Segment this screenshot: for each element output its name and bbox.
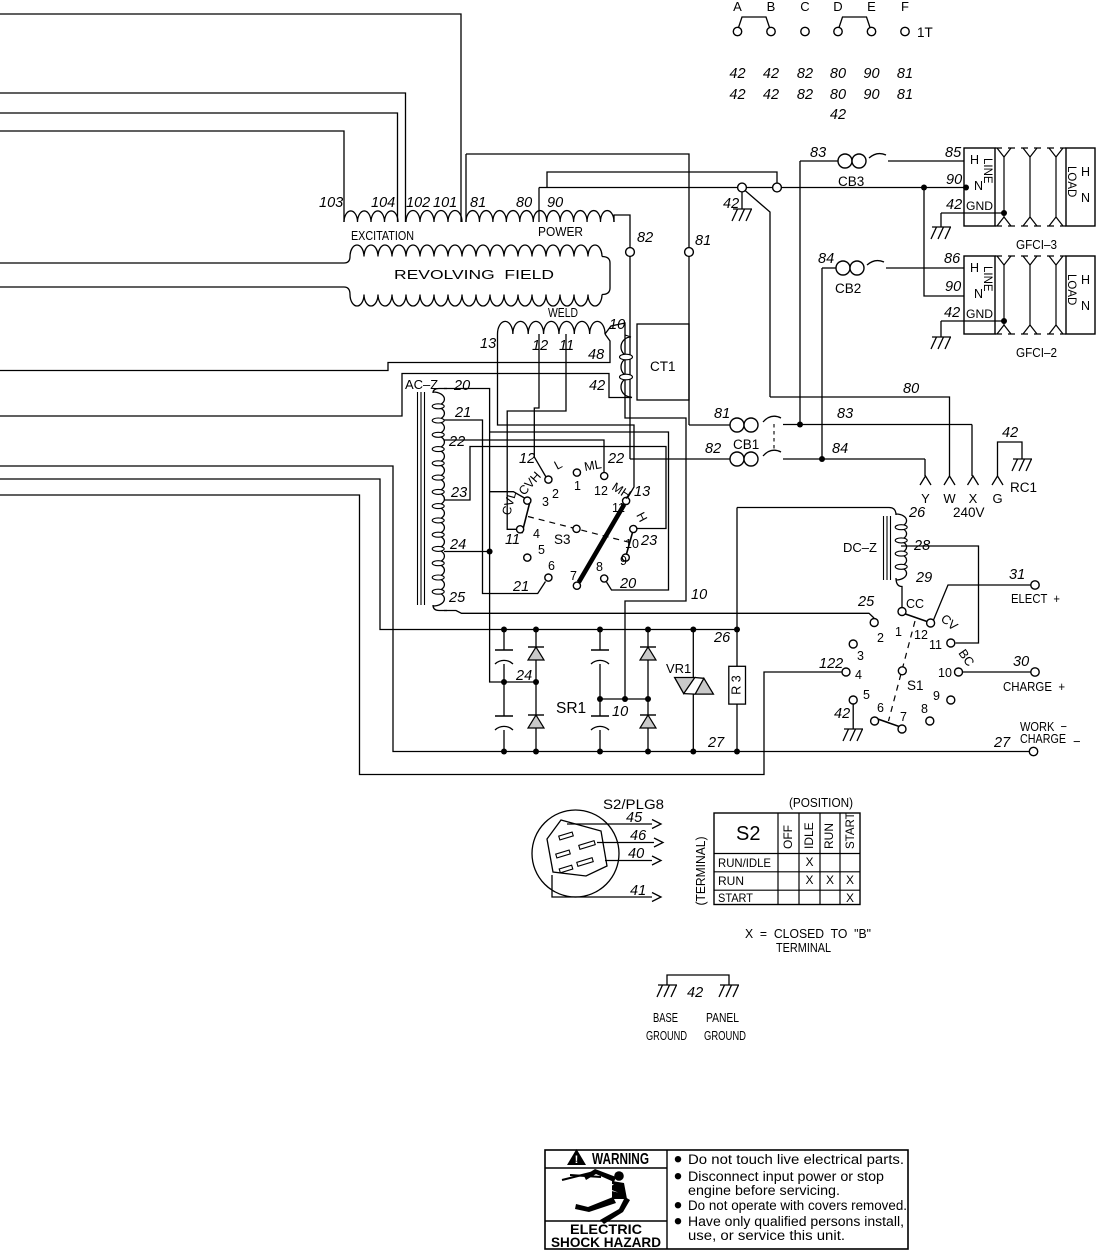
svg-text:42: 42 — [763, 87, 779, 103]
svg-text:42: 42 — [729, 87, 745, 103]
svg-text:81: 81 — [695, 233, 711, 249]
S1 contact 6 — [871, 717, 879, 725]
svg-text:E: E — [867, 0, 876, 14]
svg-text:25: 25 — [448, 590, 466, 606]
resistor R3 — [736, 630, 738, 667]
svg-text:GND: GND — [966, 307, 993, 321]
svg-text:EXCITATION: EXCITATION — [351, 229, 414, 243]
S1 contact 4 — [842, 668, 850, 676]
svg-text:TERMINAL: TERMINAL — [776, 940, 831, 955]
plug wire 40 — [605, 860, 652, 862]
svg-text:102: 102 — [406, 195, 430, 211]
plug wire 46 — [597, 842, 654, 844]
svg-text:X: X — [846, 873, 854, 887]
S3 contact 8 wire (node 20) — [490, 432, 669, 590]
svg-text:ELECT +: ELECT + — [1011, 591, 1060, 606]
svg-text:N: N — [974, 179, 983, 193]
svg-text:9: 9 — [620, 554, 627, 568]
plug wire 41 — [552, 875, 652, 897]
svg-text:103: 103 — [319, 195, 343, 211]
S3 contact 7 — [573, 582, 580, 589]
svg-text:24: 24 — [515, 668, 532, 684]
S1 contact 2 — [870, 619, 878, 627]
svg-text:B: B — [767, 0, 776, 14]
S3 wiper bar (11 to 7) — [579, 505, 624, 583]
svg-text:BASE: BASE — [653, 1010, 678, 1025]
svg-text:X: X — [805, 855, 813, 869]
svg-text:R 3: R 3 — [730, 675, 744, 695]
CB1 trip linkage — [773, 424, 775, 452]
current transformer CT1 — [637, 324, 689, 400]
AC-Z tap 23 — [444, 447, 666, 529]
GFCI-3 pin at x=1030 — [1029, 157, 1031, 217]
svg-text:CC: CC — [906, 597, 924, 611]
plug slot — [579, 841, 595, 850]
svg-text:CHARGE: CHARGE — [1020, 731, 1066, 746]
GFCI-3 dashed enclosure — [995, 147, 1066, 149]
svg-text:90: 90 — [863, 87, 879, 103]
wire 80 to receptacle W — [770, 397, 950, 476]
plug body — [547, 820, 607, 876]
svg-text:10: 10 — [625, 537, 639, 551]
svg-text:engine before servicing.: engine before servicing. — [688, 1183, 840, 1198]
svg-text:30: 30 — [1013, 654, 1029, 670]
svg-text:7: 7 — [900, 710, 907, 724]
wire 84 riser CB2 to CB1 — [821, 268, 823, 459]
svg-text:CB2: CB2 — [835, 281, 861, 296]
svg-text:WARNING: WARNING — [592, 1151, 649, 1168]
svg-text:SR1: SR1 — [556, 700, 586, 717]
svg-text:42: 42 — [763, 66, 779, 82]
connector circle 81 — [685, 248, 694, 257]
svg-text:42: 42 — [1002, 425, 1018, 441]
ground stub 42 at neutral connector — [741, 192, 743, 209]
svg-text:WELD: WELD — [548, 306, 578, 320]
svg-text:GROUND: GROUND — [646, 1028, 687, 1043]
svg-text:Do not touch live electrical p: Do not touch live electrical parts. — [688, 1152, 904, 1167]
svg-text:84: 84 — [818, 251, 834, 267]
svg-text:4: 4 — [855, 668, 862, 682]
svg-text:X: X — [846, 891, 854, 905]
weld winding WELD — [498, 321, 606, 334]
GFCI-3 pin at x=1056 — [1055, 157, 1057, 217]
svg-text:6: 6 — [877, 701, 884, 715]
svg-text:24: 24 — [449, 537, 466, 553]
wire 83 riser CB3 to CB1 — [799, 161, 801, 425]
wire 27 WORK/CHARGE - — [1029, 747, 1037, 755]
svg-text:6: 6 — [548, 559, 555, 573]
svg-text:23: 23 — [640, 533, 657, 549]
S1 contact 1cc — [898, 608, 906, 616]
svg-text:2: 2 — [877, 631, 884, 645]
svg-text:81: 81 — [714, 406, 730, 422]
svg-text:3: 3 — [857, 649, 864, 663]
svg-text:SHOCK HAZARD: SHOCK HAZARD — [551, 1234, 661, 1250]
warning label — [545, 1150, 908, 1249]
GFCI-3 receptacle — [964, 148, 995, 226]
wire 48 CT1 secondary top — [0, 334, 610, 371]
wire 80 upper run — [547, 172, 777, 188]
svg-text:S2: S2 — [736, 823, 760, 845]
svg-text:83: 83 — [837, 406, 853, 422]
GFCI-2 ground wire 42 — [964, 320, 1004, 322]
svg-text:Y: Y — [921, 491, 930, 506]
svg-text:21: 21 — [454, 405, 471, 421]
base ground symbol — [658, 984, 677, 986]
jumper D-E — [839, 17, 870, 28]
warning bullet text — [675, 1156, 681, 1162]
svg-text:1T: 1T — [917, 25, 933, 40]
svg-text:104: 104 — [371, 195, 395, 211]
S3 contact 5 — [524, 554, 531, 561]
wire 82 to CB1 — [629, 256, 631, 459]
svg-text:C: C — [800, 0, 809, 14]
svg-text:OFF: OFF — [781, 825, 795, 849]
svg-text:RC1: RC1 — [1010, 480, 1037, 495]
svg-text:85: 85 — [945, 145, 962, 161]
svg-text:GFCI–3: GFCI–3 — [1016, 237, 1057, 252]
svg-text:82: 82 — [637, 230, 653, 246]
svg-text:A: A — [733, 0, 742, 14]
svg-text:Do not operate with covers rem: Do not operate with covers removed. — [688, 1198, 907, 1213]
AC-Z tap 25 — [444, 611, 874, 619]
wire 81 feeder to CB1 — [466, 154, 689, 248]
svg-text:12: 12 — [519, 451, 535, 467]
S3 bar (10 to 9) — [627, 533, 633, 555]
S3 CVL bar (3 to 4) — [522, 499, 531, 534]
left feeder to top bus (node 26) — [0, 479, 737, 630]
svg-text:ML: ML — [583, 457, 603, 474]
svg-text:42: 42 — [944, 305, 960, 321]
svg-text:83: 83 — [810, 145, 826, 161]
weld tap 13 drop — [498, 334, 635, 498]
svg-text:!: ! — [575, 1154, 579, 1166]
svg-text:X = CLOSED TO "B": X = CLOSED TO "B" — [745, 926, 871, 941]
S1 contact 8 — [926, 717, 934, 725]
svg-text:X: X — [826, 873, 834, 887]
plug slot — [559, 832, 574, 840]
base/panel ground 42 — [667, 975, 729, 985]
svg-text:RUN: RUN — [822, 823, 836, 849]
svg-text:LOAD: LOAD — [1065, 166, 1077, 197]
svg-text:PANEL: PANEL — [706, 1010, 739, 1025]
S1 6-7 bar — [878, 719, 899, 727]
svg-text:CT1: CT1 — [650, 359, 676, 374]
GFCI-2 pin at x=1004 — [1003, 265, 1005, 325]
shock hazard pictogram — [562, 1169, 630, 1224]
S3 contact 6 — [545, 574, 552, 581]
GFCI-2 pin at x=1030 — [1029, 265, 1031, 325]
svg-text:CHARGE +: CHARGE + — [1003, 679, 1065, 694]
neutral wire 90 bus — [539, 187, 966, 189]
svg-text:12: 12 — [594, 484, 608, 498]
svg-text:1: 1 — [895, 625, 902, 639]
plug slot — [556, 850, 571, 858]
svg-text:11: 11 — [929, 638, 942, 652]
GFCI-3 pin at x=1004 — [1003, 157, 1005, 217]
plug slot — [577, 858, 593, 867]
svg-text:8: 8 — [596, 560, 603, 574]
S3 contact 10h — [630, 525, 637, 532]
wire 83 to receptacle X — [971, 425, 973, 477]
svg-text:VR1: VR1 — [666, 661, 691, 676]
SR1 capacitor column 3 — [599, 630, 601, 651]
svg-text:122: 122 — [819, 656, 843, 672]
svg-text:9: 9 — [933, 689, 940, 703]
junction to GFCI-2 neutral — [921, 185, 927, 191]
svg-text:LOAD: LOAD — [1065, 274, 1077, 305]
svg-text:20: 20 — [453, 378, 470, 394]
svg-text:12: 12 — [914, 628, 928, 642]
SR1 capacitor column 1 — [503, 630, 505, 651]
wire 10 weld to CT1 primary — [605, 323, 686, 698]
exciter winding EXCITATION (102/101 group) — [406, 210, 462, 222]
svg-text:11: 11 — [505, 532, 520, 548]
svg-text:H: H — [970, 153, 979, 167]
weld tap 11 drop — [507, 334, 566, 529]
svg-text:90: 90 — [946, 172, 962, 188]
S1 linkage dashed — [889, 621, 916, 721]
svg-text:START: START — [845, 812, 857, 849]
SR1 diode column 4 — [647, 630, 649, 648]
wire 31 ELECT + — [934, 585, 1031, 620]
svg-text:H: H — [1081, 273, 1090, 287]
svg-text:Have only qualified persons in: Have only qualified persons install, — [688, 1214, 904, 1229]
svg-text:D: D — [833, 0, 842, 14]
svg-text:25: 25 — [857, 594, 875, 610]
svg-text:82: 82 — [705, 441, 721, 457]
connector circle 82 — [626, 248, 635, 257]
svg-text:42: 42 — [589, 378, 605, 394]
DC-Z tap 29 (bottom) — [896, 578, 902, 608]
S1 ground at contact 5 — [852, 704, 854, 729]
svg-text:90: 90 — [547, 195, 563, 211]
plug wire 45 — [567, 823, 652, 825]
svg-text:3: 3 — [542, 495, 549, 509]
svg-text:11: 11 — [612, 501, 625, 515]
svg-text:10: 10 — [938, 666, 952, 680]
connector circle pair on neutral — [738, 183, 747, 192]
svg-text:CB3: CB3 — [838, 174, 864, 189]
svg-text:4: 4 — [533, 527, 540, 541]
wire 24 to rectifier mid — [500, 681, 536, 683]
svg-text:82: 82 — [797, 66, 813, 82]
svg-text:84: 84 — [832, 441, 848, 457]
wire 80 diagonal down to CB area — [745, 191, 770, 397]
svg-text:Disconnect input power or stop: Disconnect input power or stop — [688, 1169, 884, 1184]
svg-text:8: 8 — [921, 702, 928, 716]
svg-text:46: 46 — [630, 828, 647, 844]
svg-text:80: 80 — [830, 66, 846, 82]
breaker CB3 — [800, 160, 838, 162]
panel ground symbol — [720, 984, 739, 986]
svg-text:POWER: POWER — [538, 225, 583, 239]
svg-text:N: N — [1081, 299, 1090, 313]
S3 contact 11mh — [623, 497, 630, 504]
svg-text:27: 27 — [993, 735, 1011, 751]
svg-text:7: 7 — [570, 569, 577, 583]
revolving field winding — [0, 262, 344, 264]
svg-text:X: X — [805, 873, 813, 887]
plug slot — [559, 865, 573, 873]
svg-text:DC–Z: DC–Z — [843, 540, 877, 555]
svg-text:80: 80 — [903, 381, 919, 397]
svg-text:START: START — [718, 891, 754, 905]
S1 CC-CV bar — [906, 614, 928, 622]
svg-text:48: 48 — [588, 347, 604, 363]
svg-text:−: − — [1073, 734, 1081, 749]
svg-text:1: 1 — [574, 479, 581, 493]
svg-text:81: 81 — [470, 195, 486, 211]
svg-text:42: 42 — [729, 66, 745, 82]
svg-text:10: 10 — [612, 704, 628, 720]
svg-text:W: W — [943, 491, 956, 506]
S3 contact 12ml — [601, 472, 608, 479]
warning triangle — [567, 1149, 586, 1165]
svg-text:5: 5 — [538, 543, 545, 557]
left feeder to bottom bus (node 27) — [0, 466, 1029, 752]
svg-text:41: 41 — [630, 883, 646, 899]
svg-text:23: 23 — [450, 485, 467, 501]
GFCI-2 pin at x=1056 — [1055, 265, 1057, 325]
terminal G — [992, 476, 1003, 485]
svg-text:80: 80 — [830, 87, 846, 103]
svg-text:2: 2 — [552, 487, 559, 501]
AC-Z tap 24 — [444, 551, 490, 553]
svg-text:22: 22 — [448, 434, 465, 450]
svg-text:42: 42 — [723, 196, 739, 212]
AC-Z tap 22 — [444, 440, 604, 473]
S1 contact 5 — [849, 696, 857, 704]
svg-text:90: 90 — [945, 279, 961, 295]
svg-text:80: 80 — [516, 195, 532, 211]
wire 10 to rectifier mid — [600, 698, 648, 700]
wire 42 CT1 secondary bottom — [0, 374, 632, 417]
svg-text:22: 22 — [607, 451, 624, 467]
svg-text:REVOLVING FIELD: REVOLVING FIELD — [394, 267, 554, 282]
S3 contact 3 wire to node 20/24 — [490, 492, 525, 498]
svg-text:81: 81 — [897, 87, 913, 103]
svg-text:28: 28 — [913, 538, 930, 554]
svg-text:N: N — [974, 287, 983, 301]
S3 contact 3 — [524, 497, 531, 504]
svg-text:F: F — [901, 0, 909, 14]
S1 hub — [898, 667, 906, 675]
svg-text:26: 26 — [908, 505, 926, 521]
AC-Z tap 20 — [444, 389, 500, 683]
svg-text:13: 13 — [634, 484, 650, 500]
AC-Z tap 21 — [444, 420, 546, 594]
svg-text:X: X — [969, 491, 978, 506]
GFCI-2 receptacle — [964, 256, 995, 334]
svg-text:S3: S3 — [554, 532, 571, 547]
S3 contact 8 — [601, 575, 608, 582]
S1 contact 3 — [849, 640, 857, 648]
svg-text:42: 42 — [830, 107, 846, 123]
svg-text:26: 26 — [713, 630, 731, 646]
exciter winding EXCITATION (103/104 group) — [344, 211, 398, 222]
svg-text:21: 21 — [512, 579, 529, 595]
svg-text:use, or service this unit.: use, or service this unit. — [688, 1228, 845, 1243]
wire 30 CHARGE + — [963, 671, 1031, 673]
svg-text:10: 10 — [691, 587, 707, 603]
breaker CB1 lower pole — [630, 458, 730, 460]
switch table S2 — [714, 813, 860, 905]
svg-text:13: 13 — [480, 336, 496, 352]
GFCI-3 neutral junction — [963, 185, 969, 191]
jumper A-B — [739, 17, 770, 28]
svg-text:H: H — [970, 261, 979, 275]
svg-text:81: 81 — [897, 66, 913, 82]
svg-text:27: 27 — [707, 735, 725, 751]
S1 contact 12cv — [927, 619, 935, 627]
svg-text:GFCI–2: GFCI–2 — [1016, 345, 1057, 360]
svg-text:S1: S1 — [907, 678, 924, 693]
svg-text:42: 42 — [687, 985, 703, 1001]
svg-text:42: 42 — [834, 706, 850, 722]
S1 contact 10 — [955, 668, 963, 676]
svg-text:240V: 240V — [953, 505, 985, 520]
terminal X — [968, 476, 979, 485]
svg-text:H: H — [1081, 165, 1090, 179]
varistor VR1 — [692, 630, 694, 678]
svg-text:45: 45 — [626, 810, 643, 826]
svg-text:(POSITION): (POSITION) — [789, 795, 853, 810]
svg-text:86: 86 — [944, 251, 961, 267]
svg-text:5: 5 — [863, 688, 870, 702]
terminal Y — [920, 476, 931, 485]
svg-text:31: 31 — [1009, 567, 1025, 583]
S3 contact 9 — [622, 554, 629, 561]
weld tap 12 drop — [534, 334, 546, 477]
power winding POWER — [465, 154, 467, 222]
svg-text:CB1: CB1 — [733, 437, 759, 452]
S3 linkage dashed — [528, 517, 630, 543]
svg-text:101: 101 — [433, 195, 457, 211]
wire 84 to receptacle Y — [924, 459, 926, 476]
svg-text:29: 29 — [915, 570, 932, 586]
svg-text:40: 40 — [628, 846, 644, 862]
terminal W — [944, 476, 955, 485]
top-left feeder wires — [0, 14, 461, 222]
S3 hub — [573, 525, 580, 532]
svg-text:G: G — [992, 491, 1002, 506]
svg-text:90: 90 — [863, 66, 879, 82]
DC-Z tap 26 (top) — [737, 508, 896, 516]
svg-text:20: 20 — [619, 576, 636, 592]
svg-text:N: N — [1081, 191, 1090, 205]
breaker CB2 — [822, 267, 836, 269]
S1 contact 7 — [898, 725, 906, 733]
svg-text:IDLE: IDLE — [802, 822, 816, 849]
svg-text:82: 82 — [797, 87, 813, 103]
S1 contact 11 — [947, 639, 955, 647]
svg-text:GND: GND — [966, 199, 993, 213]
svg-text:AC–Z: AC–Z — [405, 377, 438, 392]
S3 contact 2cvh — [545, 476, 552, 483]
RC1 ground wire 42 — [998, 442, 1023, 476]
DC-Z tap 28 — [901, 546, 979, 643]
S3 contact 1L — [573, 469, 580, 476]
svg-text:GROUND: GROUND — [704, 1028, 746, 1043]
SR1 diode column 2 — [535, 630, 537, 648]
svg-text:RUN/IDLE: RUN/IDLE — [718, 856, 771, 870]
S3 contact 4 — [517, 526, 524, 533]
left feeder wire 122 — [0, 495, 842, 775]
breaker CB1 upper pole — [689, 424, 730, 426]
GFCI-3 ground wire 42 — [964, 212, 1004, 214]
svg-text:42: 42 — [946, 197, 962, 213]
